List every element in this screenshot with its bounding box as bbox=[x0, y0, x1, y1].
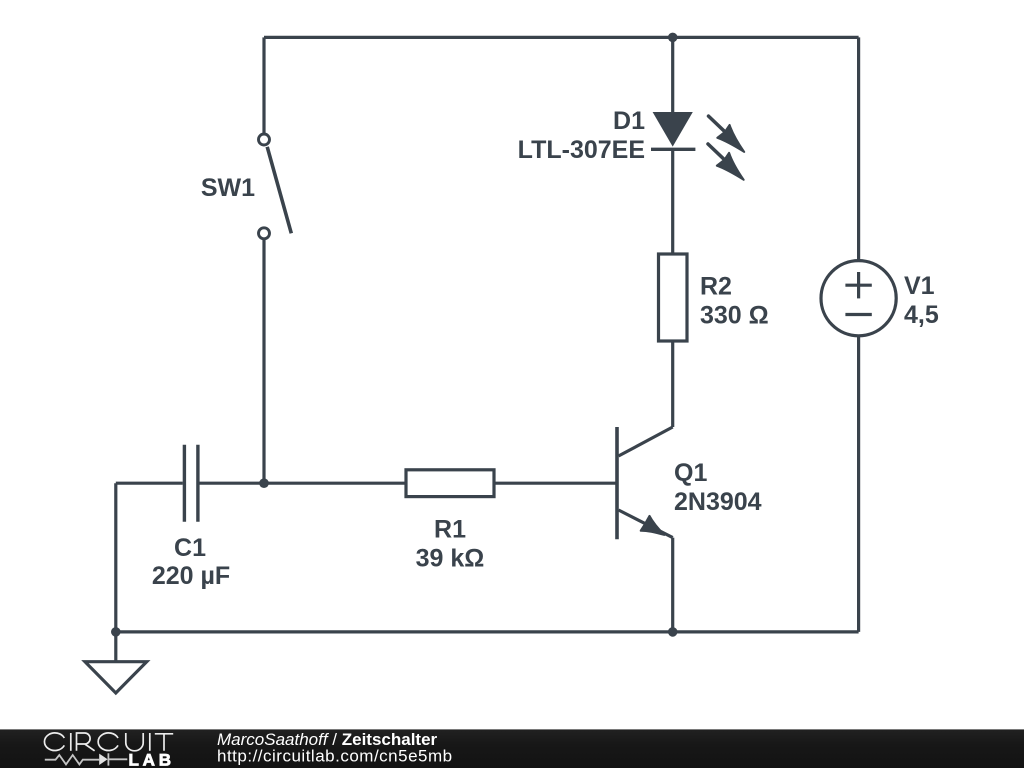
svg-text:http://circuitlab.com/cn5e5mb: http://circuitlab.com/cn5e5mb bbox=[217, 747, 453, 766]
wire node to R1 bbox=[264, 482, 406, 485]
svg-text:LAB: LAB bbox=[129, 751, 175, 768]
node junction C1/R1 bbox=[259, 478, 269, 488]
wire left vertical bbox=[114, 483, 117, 632]
wire switch top lead bbox=[262, 37, 265, 134]
wire top horizontal bbox=[264, 36, 859, 39]
node junction emitter bbox=[668, 627, 678, 637]
wire capacitor right lead bbox=[199, 482, 264, 485]
svg-text:4,5: 4,5 bbox=[904, 301, 939, 329]
wire LED cathode to R2 bbox=[671, 149, 674, 254]
capacitor C1 bbox=[184, 445, 198, 522]
wire right top (V1 positive lead) bbox=[857, 37, 860, 260]
svg-text:39 kΩ: 39 kΩ bbox=[416, 545, 485, 573]
wire switch bottom lead bbox=[262, 240, 265, 484]
wire right bottom (V1 negative lead) bbox=[857, 336, 860, 632]
svg-text:R2: R2 bbox=[700, 273, 732, 301]
svg-text:330 Ω: 330 Ω bbox=[700, 302, 769, 330]
node junction ground bbox=[111, 627, 121, 637]
svg-text:LTL-307EE: LTL-307EE bbox=[518, 136, 645, 164]
wire bottom horizontal bbox=[116, 630, 859, 633]
wire ground lead bbox=[114, 632, 117, 661]
logo resistor-diode squiggle bbox=[45, 753, 128, 765]
svg-text:V1: V1 bbox=[904, 272, 935, 300]
svg-text:220 µF: 220 µF bbox=[152, 562, 230, 590]
wire capacitor left lead bbox=[116, 482, 183, 485]
ground bbox=[85, 662, 147, 693]
wire R1 to Q1 base bbox=[494, 482, 616, 485]
node junction top bbox=[668, 33, 678, 43]
svg-text:SW1: SW1 bbox=[201, 174, 255, 202]
svg-text:Q1: Q1 bbox=[674, 459, 707, 487]
svg-text:D1: D1 bbox=[613, 107, 645, 135]
svg-text:R1: R1 bbox=[434, 516, 466, 544]
transistor Q1 bbox=[617, 427, 673, 632]
footer bar bbox=[0, 729, 1024, 768]
svg-text:C1: C1 bbox=[174, 534, 206, 562]
resistor R2 bbox=[659, 254, 688, 341]
svg-text:2N3904: 2N3904 bbox=[674, 488, 762, 516]
voltage source V1 bbox=[821, 261, 896, 336]
resistor R1 bbox=[406, 470, 494, 497]
wire R2 to Q1 collector bbox=[671, 341, 674, 427]
switch SW1 bbox=[259, 134, 292, 239]
logo CIRCUIT text bbox=[44, 733, 173, 751]
LED D1 bbox=[651, 112, 744, 180]
wire LED anode lead bbox=[671, 37, 674, 113]
